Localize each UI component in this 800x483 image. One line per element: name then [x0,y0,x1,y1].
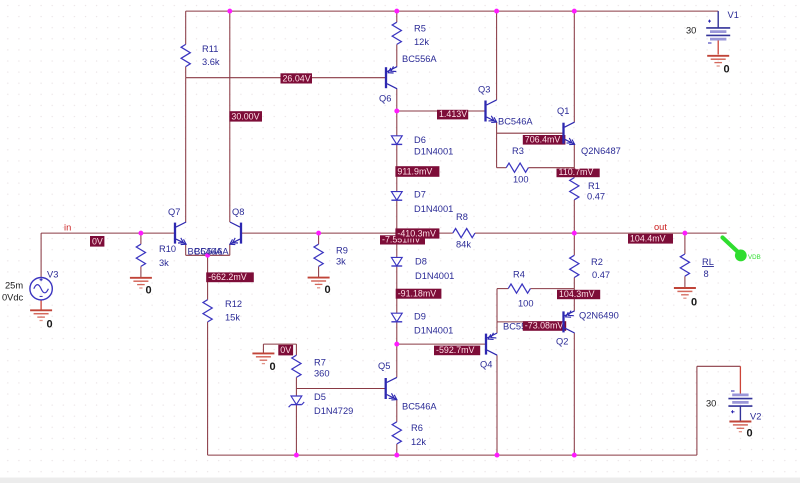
source V1 battery [686,10,739,43]
wire node 104.3mV to Q2 emitter [573,289,575,311]
svg-text:12k: 12k [411,437,426,447]
node junction Q6 collector 1.413V [394,109,399,114]
wire node to Q5 collector [396,344,398,377]
svg-text:D1N4001: D1N4001 [414,326,453,336]
resistor R8 [453,212,475,250]
svg-text:100: 100 [518,299,534,309]
wire 0V ground stub [262,344,264,353]
wire Q1 collector to rail [573,11,575,122]
wire R5 top lead [396,11,398,22]
wire R1 bottom to output bus [573,200,575,233]
bias label 0V at R7 ground [278,345,293,356]
svg-text:0: 0 [724,64,730,76]
net label out [654,222,667,232]
bias label 706.4mV [523,134,566,144]
wire D9 cathode to node -592.7mV [396,322,398,344]
resistor R9 [314,244,348,266]
svg-text:0: 0 [146,285,152,297]
svg-text:R11: R11 [202,44,218,54]
resistor R12 [203,299,242,323]
bias label -662.2mV [206,272,254,282]
node junction bus-R9 [316,231,321,236]
svg-text:D5: D5 [314,392,326,402]
source V2 battery [706,391,761,422]
wire V2 negative pin [739,366,741,394]
svg-text:104.4mV: 104.4mV [630,233,666,243]
svg-text:Q4: Q4 [480,360,492,370]
svg-text:R8: R8 [456,212,468,222]
wire R2 top lead [573,233,575,255]
resistor R4 [508,270,533,309]
svg-text:360: 360 [314,369,330,379]
resistor R10 [136,244,176,268]
svg-text:BC546A: BC546A [498,117,533,127]
resistor R3 [506,146,528,185]
ground V1 [707,56,729,76]
svg-text:0: 0 [747,428,753,440]
ground R9 [308,278,331,296]
resistor RL [680,254,714,279]
svg-text:0Vdc: 0Vdc [2,293,24,303]
bias label 104.3mV [557,289,600,299]
svg-text:8: 8 [704,269,709,279]
ground R10 [130,278,152,297]
svg-text:0.47: 0.47 [592,270,610,280]
resistor R11 [181,44,220,67]
svg-text:D7: D7 [414,190,426,200]
diode D6 D1N4001 [391,135,453,157]
wire Q8 collector to rail (30.00V) [229,11,231,222]
resistor R1 [570,178,605,202]
svg-text:BC546A: BC546A [194,247,229,257]
bias label 1.413V [437,109,468,119]
bias label 30.00V [229,111,262,121]
wire Q4 collector to rail [496,355,498,455]
node junction bus-R2 [572,231,577,236]
svg-text:Q3: Q3 [478,85,490,95]
svg-text:0: 0 [691,297,697,309]
wire R2 bottom to node 104.3mV [573,278,575,289]
node junction bus-R10 [138,231,143,236]
wire R4 down to Q2 base node [496,289,498,322]
node out junction [682,231,687,236]
svg-text:-91.18mV: -91.18mV [398,289,437,299]
wire R6 bottom to rail [396,444,398,455]
wire Q8 emitter to tail node [208,244,230,255]
source V3 [2,270,58,303]
svg-text:R12: R12 [225,299,242,309]
ground 0V node [252,353,275,373]
bias label -73.08mV [523,321,566,331]
svg-text:R7: R7 [314,358,326,368]
wire node to D5 cathode [295,389,297,397]
transistor Q7 BC546A [168,207,186,245]
wire V3 to ground [40,300,42,310]
bias label 110.7mV [557,167,600,177]
wire top +30V rail [186,10,719,12]
svg-text:Q7: Q7 [168,207,180,217]
svg-text:D1N4001: D1N4001 [415,271,454,281]
bias label 0V at input [90,236,104,247]
wire R3 left lead [497,167,507,169]
wire R9 top lead [318,233,320,244]
node junction rail-Q8 [227,9,232,14]
wire D5 anode to rail [295,405,297,456]
bias label -410.3mV [395,228,439,238]
svg-text:V3: V3 [47,270,58,280]
svg-text:R5: R5 [414,24,426,34]
svg-text:V1: V1 [728,10,739,20]
wire V2 positive to ground [739,406,741,421]
label BC556A of Q2 driver [503,322,538,332]
wire D7 cathode to output bus [396,200,398,233]
resistor R7 [292,355,330,378]
ground V2 [729,422,752,440]
bias label -592.7mV [434,345,480,355]
wire Q3 collector to rail [496,11,498,100]
svg-text:84k: 84k [456,240,471,250]
svg-text:-662.2mV: -662.2mV [208,272,247,282]
svg-text:R4: R4 [513,270,525,280]
transistor Q2 Q2N6490 [556,311,619,347]
probe VDB marker [723,238,761,262]
svg-text:Q1: Q1 [557,106,569,116]
svg-text:D1N4001: D1N4001 [414,147,453,157]
svg-text:30: 30 [686,26,696,36]
bias label 104.4mV [628,233,673,243]
diode D8 D1N4001 [391,257,454,282]
svg-text:100: 100 [513,175,529,185]
label BC546A overlapped pair [188,247,230,257]
svg-text:RL: RL [702,257,714,267]
svg-text:0.47: 0.47 [587,192,605,202]
svg-text:D6: D6 [414,135,426,145]
wire input bus from V3 to Q7 base [41,232,175,234]
node junction rail-R6 [394,453,399,458]
svg-text:R1: R1 [588,181,600,191]
svg-text:30: 30 [706,399,716,409]
resistor R2 [570,255,610,280]
svg-text:Q8: Q8 [232,207,244,217]
svg-text:R3: R3 [512,146,524,156]
wire node -592.7mV to Q4 base [397,343,486,345]
svg-text:706.4mV: 706.4mV [525,134,561,144]
svg-text:D8: D8 [415,257,427,267]
wire Q2 collector to rail [573,333,575,455]
svg-text:R2: R2 [591,257,603,267]
svg-text:0: 0 [325,284,331,296]
svg-text:0V: 0V [92,236,103,246]
transistor Q6 BC556A [379,54,437,104]
svg-text:D1N4001: D1N4001 [414,204,453,214]
svg-text:Q6: Q6 [379,94,391,104]
wire R7 top lead [295,344,297,355]
wire rail up to V2 [697,366,741,455]
wire R11 bottom to node 26.04V [185,67,187,78]
node junction rail-D5 [294,453,299,458]
svg-text:30.00V: 30.00V [231,111,259,121]
node junction rail-Q1 [572,9,577,14]
resistor R5 [392,22,429,47]
wire V3 to input bus [40,233,42,277]
bias label -7.551mV [380,234,425,244]
wire bottom -30V rail [208,454,697,456]
wire R11 top lead [185,11,187,44]
node junction rail-R5 [394,9,399,14]
transistor Q1 Q2N6487 [557,106,621,156]
diode D7 D1N4001 [391,190,453,215]
wire Q3 emitter down to R3 [496,122,498,168]
wire R5 to Q6 emitter [396,44,398,66]
svg-text:-592.7mV: -592.7mV [436,345,475,355]
svg-text:12k: 12k [414,37,429,47]
svg-text:0: 0 [47,319,53,331]
bias label -91.18mV [396,289,442,299]
wire Q7 collector [185,78,187,222]
transistor Q8 BC546A [230,207,245,245]
svg-text:26.04V: 26.04V [283,73,311,83]
svg-text:D1N4729: D1N4729 [314,406,353,416]
net label in [64,223,71,233]
svg-text:25m: 25m [5,281,23,291]
wire R4 right lead [530,288,574,290]
svg-text:R9: R9 [336,246,348,256]
svg-text:15k: 15k [225,313,240,323]
svg-text:0V: 0V [280,345,291,355]
svg-text:3k: 3k [159,258,169,268]
node junction rail-Q4 [495,453,500,458]
svg-text:Q2N6487: Q2N6487 [581,146,621,156]
svg-text:Q2: Q2 [556,337,568,347]
wire V1 negative to ground [717,41,719,55]
node junction -592.7mV [394,342,399,347]
diode D5 D1N4729 zener [289,392,354,416]
wire node 1.413V to Q3 base [397,110,486,112]
svg-text:R10: R10 [159,244,176,254]
resistor R6 [392,422,426,447]
wire R9 bottom lead [318,266,320,277]
wire out node to RL [684,233,686,254]
wire R4 left lead [497,288,508,290]
ground RL [674,288,697,309]
wire Q7 emitter to tail node [186,244,208,255]
wire tail node to R12 [207,255,209,299]
wire R3 right lead to node 110.7mV [528,167,574,169]
wire node to Q2 base [497,321,564,323]
svg-text:D9: D9 [414,312,426,322]
bias label 911.9mV [395,166,439,177]
bias label 26.04V [281,73,313,83]
wire bus to D8 anode [396,233,398,257]
wire Q6 collector to node [396,89,398,111]
wire R10 top lead [140,233,142,244]
diode D9 D1N4001 [391,312,453,336]
svg-text:-410.3mV: -410.3mV [397,228,436,238]
wire Q1 emitter to R1 [573,144,575,177]
svg-text:0: 0 [270,361,276,373]
svg-text:3k: 3k [336,257,346,267]
wire output bus Q8 base to R8 [241,232,453,234]
wire RL bottom to ground [684,276,686,287]
wire Q5 emitter to R6 [396,400,398,422]
wire R12 bottom to rail [207,322,209,455]
svg-text:BC556A: BC556A [402,54,437,64]
ground V3 [30,310,53,330]
svg-text:Q2N6490: Q2N6490 [579,311,619,321]
wire Q4 emitter up to node [496,322,498,333]
svg-text:Q5: Q5 [378,361,390,371]
svg-text:R6: R6 [411,423,423,433]
svg-text:out: out [654,222,667,232]
node junction rail-Q2 [572,453,577,458]
wire D8 cathode to D9 anode [396,266,398,313]
wire node to Q5 base [296,388,385,390]
svg-text:110.7mV: 110.7mV [559,167,594,177]
wire Q3 emitter to Q1 base [497,132,564,134]
wire 0V ground to R7 top [263,343,296,345]
node junction rail-Q3 [494,9,499,14]
transistor Q4 BC556A [480,333,497,370]
svg-text:1.413V: 1.413V [439,109,467,119]
svg-text:911.9mV: 911.9mV [397,167,432,177]
wire R10 bottom lead [140,266,142,277]
svg-text:-73.08mV: -73.08mV [525,321,564,331]
wire V1 positive pin [717,11,719,28]
svg-text:BC546A: BC546A [402,402,437,412]
wire node to D6 anode [396,111,398,136]
svg-text:VDB: VDB [748,254,761,261]
svg-text:V2: V2 [750,412,761,422]
wire 26.04V node to Q6 base [186,77,386,79]
transistor Q5 BC546A [378,361,437,412]
wire output bus R8 to out [475,232,727,234]
wire D6 cathode to D7 anode [396,144,398,191]
svg-text:104.3mV: 104.3mV [559,289,595,299]
node tail junction -662.2mV [205,253,210,258]
transistor Q3 BC546A [478,85,533,127]
svg-text:in: in [64,223,71,233]
wire R7 bottom to Q5 base node [295,377,297,388]
svg-text:3.6k: 3.6k [202,57,220,67]
